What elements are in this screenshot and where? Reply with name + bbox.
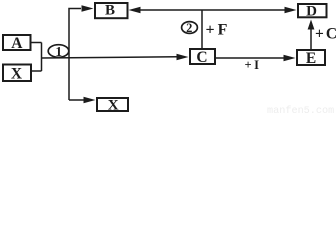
svg-text:X: X [11, 66, 23, 83]
svg-text:A: A [11, 35, 23, 52]
svg-text:C: C [196, 49, 207, 66]
svg-text:+I: +I [245, 58, 262, 72]
svg-text:+C: +C [315, 26, 336, 43]
svg-text:manfen5.com: manfen5.com [267, 105, 334, 114]
svg-text:X: X [108, 97, 119, 113]
svg-text:D: D [306, 4, 317, 20]
svg-text:2: 2 [186, 21, 192, 35]
svg-text:B: B [105, 3, 115, 19]
svg-text:E: E [306, 50, 316, 67]
svg-text:+F: +F [206, 21, 231, 38]
svg-text:1: 1 [55, 44, 62, 59]
